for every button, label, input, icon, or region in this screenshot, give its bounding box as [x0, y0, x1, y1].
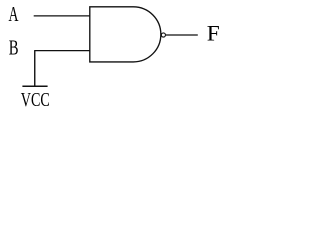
NAND gate inversion bubble [161, 33, 165, 37]
VCC rail bar [22, 85, 47, 87]
svg-text:F: F [207, 20, 220, 45]
NAND gate U1 body [90, 7, 161, 62]
svg-text:A: A [9, 2, 19, 26]
wire F output [166, 34, 198, 36]
wire A [34, 15, 90, 17]
wire VCC drop [34, 50, 36, 86]
svg-text:B: B [9, 36, 19, 60]
wire B [35, 50, 90, 52]
svg-text:VCC: VCC [21, 89, 50, 111]
